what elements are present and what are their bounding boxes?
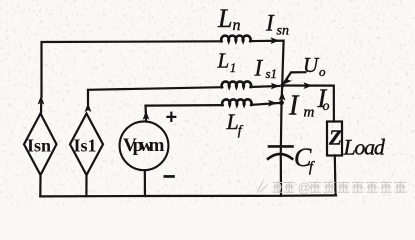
svg-text:I: I: [254, 56, 264, 81]
wire row3 right of Lf coil to junction: [251, 103, 282, 105]
wire Z box bottom to bottom rail: [334, 156, 337, 196]
svg-text:n: n: [233, 17, 241, 34]
svg-text:@: @: [298, 180, 311, 195]
arrow tap pointing at node: [283, 76, 292, 86]
voltage source Vpwm circle: [120, 121, 169, 170]
wire row1 right of Ln coil to corner, down to node: [250, 41, 283, 86]
wire row3 from Vpwm corner to Lf coil: [146, 105, 223, 112]
svg-text:m: m: [304, 104, 315, 120]
capacitor Cf top plate: [269, 145, 293, 148]
svg-text:L: L: [217, 4, 232, 33]
svg-text:s1: s1: [266, 66, 278, 81]
svg-text:o: o: [319, 64, 326, 79]
svg-text:Is1: Is1: [74, 136, 97, 156]
bottom rail wire: [40, 195, 336, 196]
wire Vpwm stem to circle: [145, 112, 147, 121]
inductor L1 coil: [222, 81, 251, 87]
inductor Ln coil: [221, 36, 250, 42]
arrow on Is1 stem: [85, 103, 92, 112]
wire row2 right of L1 coil to node: [251, 86, 280, 87]
svg-text:sn: sn: [277, 24, 289, 39]
wire row2 from Isl corner to L1 coil: [88, 87, 222, 104]
arrow Im up toward node: [279, 92, 286, 101]
svg-text:Vpwm: Vpwm: [123, 135, 165, 156]
wire node to load corner and down to Z box: [282, 86, 334, 122]
arrow row3 Lf current into junction: [268, 100, 277, 107]
svg-text:Z: Z: [328, 126, 342, 150]
svg-text:I: I: [288, 91, 300, 122]
svg-text:Isn: Isn: [27, 136, 51, 156]
wire Isn diamond to bottom rail: [39, 175, 41, 196]
junction dot node: [280, 84, 284, 88]
current source Is1 diamond: [70, 114, 103, 176]
arrow on Vpwm stem: [143, 111, 150, 120]
svg-text:1: 1: [230, 60, 237, 75]
wire Is1 diamond to bottom rail: [85, 175, 87, 196]
svg-text:Load: Load: [343, 135, 386, 160]
svg-text:+: +: [166, 106, 178, 128]
arrow Io on load wire: [304, 82, 313, 89]
inductor Lf coil: [222, 99, 251, 105]
svg-text:o: o: [323, 99, 330, 114]
arrow row2 Is1 current into node: [271, 83, 280, 90]
voltage tap diagonal to Uo: [284, 72, 306, 83]
minus sign of Vpwm: [164, 175, 175, 178]
svg-text:I: I: [265, 11, 275, 36]
load box Z: [327, 122, 342, 156]
arrow on Isn stem: [38, 96, 45, 105]
wire row1 top from Isn corner to Ln coil: [42, 41, 222, 97]
arrow row1 Isn current into corner: [271, 37, 280, 44]
capacitor Cf curved bottom plate: [268, 154, 292, 159]
wire Vpwm circle to bottom rail: [144, 170, 146, 196]
junction dot row3: [279, 100, 284, 105]
wire node vertical down through row3 junction to capacitor: [281, 86, 282, 153]
wire Isn stem below arrow to diamond: [40, 104, 42, 114]
svg-text:U: U: [303, 53, 320, 77]
current source Isn diamond: [24, 114, 57, 176]
svg-text:L: L: [217, 49, 230, 73]
wire capacitor to bottom rail: [280, 155, 282, 196]
watermark zhihu: [257, 181, 406, 193]
